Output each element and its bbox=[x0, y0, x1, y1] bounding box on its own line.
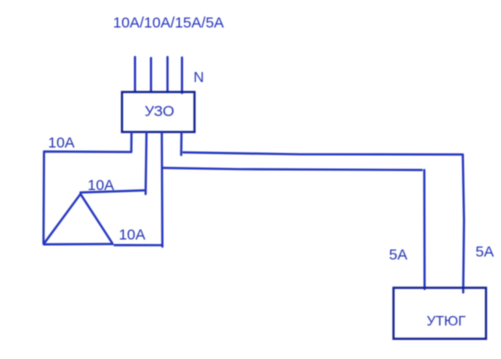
wire input line 2 bbox=[150, 58, 152, 92]
wire 5A top run to iron bbox=[183, 152, 464, 292]
svg-text:10А: 10А bbox=[119, 226, 146, 243]
svg-text:10А/10А/15А/5А: 10А/10А/15А/5А bbox=[113, 15, 224, 32]
triangle load symbol left side bbox=[44, 194, 81, 244]
wire branch 4 (5A) drop from RCD bbox=[180, 133, 183, 156]
wire input line 3 bbox=[166, 57, 168, 92]
svg-text:5А: 5А bbox=[476, 244, 494, 261]
svg-text:УТЮГ: УТЮГ bbox=[427, 312, 467, 328]
svg-text:10А: 10А bbox=[48, 135, 75, 152]
wire input line 1 bbox=[134, 57, 136, 92]
iron load box bbox=[394, 288, 487, 339]
svg-text:N: N bbox=[194, 70, 204, 86]
wire branch 2 horizontal to triangle apex bbox=[81, 190, 145, 192]
svg-text:УЗО: УЗО bbox=[145, 103, 175, 120]
wire bottom run segment 2 bbox=[115, 244, 163, 246]
wire neutral input N bbox=[181, 58, 183, 94]
wire 5A return run from branch 3 node bbox=[162, 168, 422, 170]
wire branch 2 (10A) drop from RCD bbox=[145, 133, 148, 195]
svg-text:10А: 10А bbox=[88, 177, 115, 194]
wire branch 1 (10A) from RCD to left riser bbox=[44, 133, 132, 244]
RCD box U1 bbox=[122, 92, 195, 132]
wire branch 3 (10A) drop from RCD bbox=[161, 133, 164, 247]
wire bottom run segment 1 (triangle base) bbox=[44, 243, 113, 246]
svg-text:5А: 5А bbox=[389, 246, 407, 263]
triangle load symbol right side bbox=[81, 194, 113, 243]
wire 5A return drop to iron bbox=[423, 170, 426, 289]
